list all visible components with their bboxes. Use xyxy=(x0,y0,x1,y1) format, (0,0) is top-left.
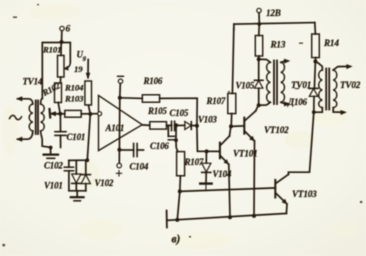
svg-text:C102: C102 xyxy=(44,161,63,171)
wire output node down to base line xyxy=(197,126,220,152)
resistor R107 (upper) xyxy=(228,93,236,113)
svg-text:R103: R103 xyxy=(64,94,84,104)
diode rail bottom xyxy=(69,190,86,192)
transformer TV14 xyxy=(16,96,51,147)
svg-text:V105: V105 xyxy=(236,81,255,91)
secondary winding xyxy=(333,70,337,108)
core xyxy=(325,69,327,110)
ground rail (lower) xyxy=(167,213,287,220)
capacitor C101 xyxy=(55,114,66,148)
svg-text:Д106: Д106 xyxy=(287,97,308,107)
tap arrow on secondary winding xyxy=(49,109,56,118)
node VT102 base xyxy=(229,124,233,128)
resistor R13 xyxy=(255,24,262,59)
svg-text:A101: A101 xyxy=(105,123,125,133)
~ source symbol xyxy=(10,115,22,119)
transistor VT101 xyxy=(220,126,231,217)
svg-text:TV02: TV02 xyxy=(340,80,361,90)
wire A101 output to R105 xyxy=(142,124,150,126)
wire R106 to output node xyxy=(160,98,198,125)
base rail (upper) xyxy=(180,188,275,192)
capacitor C106 xyxy=(168,125,176,140)
node C104 branch xyxy=(117,148,121,152)
secondary lead bottom with arrow xyxy=(333,108,343,113)
resistor R103 (horizontal) xyxy=(65,110,81,117)
diode D106 xyxy=(309,61,318,112)
node rail VT101 emitter xyxy=(228,215,232,219)
wire supply to R107 upper xyxy=(232,28,233,93)
svg-text:в): в) xyxy=(172,234,181,246)
ground under diodes xyxy=(71,191,84,201)
diode V102 xyxy=(81,160,90,191)
node TV02 bottom xyxy=(312,110,316,114)
svg-text:V101: V101 xyxy=(44,181,63,191)
core xyxy=(273,61,275,105)
terminal minus above A101 xyxy=(118,76,124,97)
wire R104 bottom to node xyxy=(88,105,90,114)
diode V104 xyxy=(200,151,211,190)
svg-text:TV01: TV01 xyxy=(291,80,311,90)
svg-text:C105: C105 xyxy=(170,108,189,118)
svg-text:C101: C101 xyxy=(67,132,86,142)
node top of R101 xyxy=(60,40,64,44)
capacitor C104 xyxy=(119,144,143,157)
svg-text:V102: V102 xyxy=(95,178,114,188)
node TV01 bottom xyxy=(257,103,261,107)
wire node to VT102 base xyxy=(231,125,244,128)
node rail R107 xyxy=(175,218,179,222)
primary winding xyxy=(319,70,323,108)
diode clamp rail top xyxy=(69,159,88,161)
transistor VT103 xyxy=(275,174,288,213)
diode V103 xyxy=(185,122,197,130)
wire R102 bottom to node xyxy=(58,103,60,114)
op-amp A101 xyxy=(99,95,143,150)
input terminal circle on A101 xyxy=(98,112,102,116)
ground under transformer xyxy=(44,148,58,159)
node TV02 top xyxy=(313,59,317,63)
svg-text:6: 6 xyxy=(66,25,71,35)
svg-text:19: 19 xyxy=(74,64,83,74)
secondary lead top with arrow xyxy=(281,61,288,62)
node feedback left xyxy=(118,96,122,100)
node ground / C101 xyxy=(49,146,53,150)
node supply xyxy=(257,22,261,26)
primary lead top xyxy=(259,59,271,62)
svg-text:R106: R106 xyxy=(143,76,163,86)
node rail VT102 emitter xyxy=(252,214,256,218)
secondary top lead xyxy=(41,99,43,105)
resistor R106 xyxy=(142,95,159,102)
secondary lead bottom with arrow xyxy=(281,102,288,103)
terminal 6 xyxy=(60,26,64,42)
svg-text:VT102: VT102 xyxy=(264,125,289,135)
node C106 join xyxy=(174,138,178,142)
potentiometer R101 xyxy=(58,43,71,78)
svg-text:V104: V104 xyxy=(213,169,232,179)
primary winding xyxy=(29,104,33,131)
svg-text:R107: R107 xyxy=(206,96,226,106)
svg-text:R107: R107 xyxy=(184,157,204,167)
svg-text:VT103: VT103 xyxy=(292,189,317,199)
node base rail left xyxy=(178,189,182,193)
resistor R14 xyxy=(312,34,320,61)
transistor VT102 xyxy=(244,105,258,215)
wire R101 to R102 xyxy=(59,77,61,83)
primary lead bottom xyxy=(314,108,323,113)
resistor R107 (left) xyxy=(177,152,185,176)
svg-text:V103: V103 xyxy=(198,115,217,125)
primary winding xyxy=(267,62,271,102)
wire R107 to ground rails xyxy=(179,176,182,192)
wire feedback node to R106 xyxy=(120,97,143,100)
wire rails joining xyxy=(177,191,180,220)
primary top lead with arrow xyxy=(18,99,33,104)
primary lead bottom xyxy=(259,102,271,105)
node R102/C101 xyxy=(58,112,62,116)
svg-text:VT101: VT101 xyxy=(233,149,258,159)
node R104 bottom xyxy=(88,112,92,116)
svg-text:12В: 12В xyxy=(266,8,281,18)
svg-text:R13: R13 xyxy=(270,40,286,50)
core xyxy=(35,101,37,135)
svg-text:R105: R105 xyxy=(147,106,167,116)
svg-text:C104: C104 xyxy=(130,162,149,172)
wire TV02 bottom to VT103 collector xyxy=(288,112,313,174)
transformer TV01 xyxy=(259,59,291,107)
primary bottom lead with arrow xyxy=(18,131,33,139)
transformer TV02 xyxy=(314,61,353,115)
node TV01 top xyxy=(257,57,261,61)
diode V101 xyxy=(72,160,81,190)
capacitor C102 xyxy=(64,160,73,190)
wire C105 node down to R107 xyxy=(176,125,178,151)
resistor R102 xyxy=(55,83,62,103)
capacitor C105 xyxy=(167,121,185,130)
secondary bottom lead xyxy=(41,131,51,147)
input Ug arrow xyxy=(86,60,91,80)
secondary lead top with arrow xyxy=(333,66,349,70)
wire node down to diode rail xyxy=(87,114,90,160)
primary lead top xyxy=(315,61,322,70)
svg-text:C106: C106 xyxy=(150,141,169,151)
wire through A101 down to output terminal xyxy=(118,98,121,163)
secondary winding xyxy=(41,104,45,131)
wire R101 left branch to transformer xyxy=(42,43,61,99)
terminal plus below A101 xyxy=(116,163,121,176)
diode V105 xyxy=(254,59,263,105)
supply rail 12V xyxy=(234,8,316,34)
node V104 top xyxy=(205,149,209,153)
svg-text:R104: R104 xyxy=(64,83,84,93)
wire to resistor R103 xyxy=(55,113,65,115)
secondary winding xyxy=(281,62,285,102)
terminal tick left end xyxy=(166,211,168,228)
svg-text:R14: R14 xyxy=(323,38,339,48)
wire R107 upper to node xyxy=(230,114,233,127)
node rail top right xyxy=(85,158,89,162)
svg-text:TV14: TV14 xyxy=(23,77,43,87)
resistor R104 (right column) xyxy=(85,81,92,105)
node after V103 xyxy=(195,124,199,128)
wire R103 to A101 input xyxy=(81,113,97,115)
svg-text:R101: R101 xyxy=(42,45,61,55)
resistor R105 xyxy=(150,122,167,129)
node C105/C106 xyxy=(174,123,178,127)
